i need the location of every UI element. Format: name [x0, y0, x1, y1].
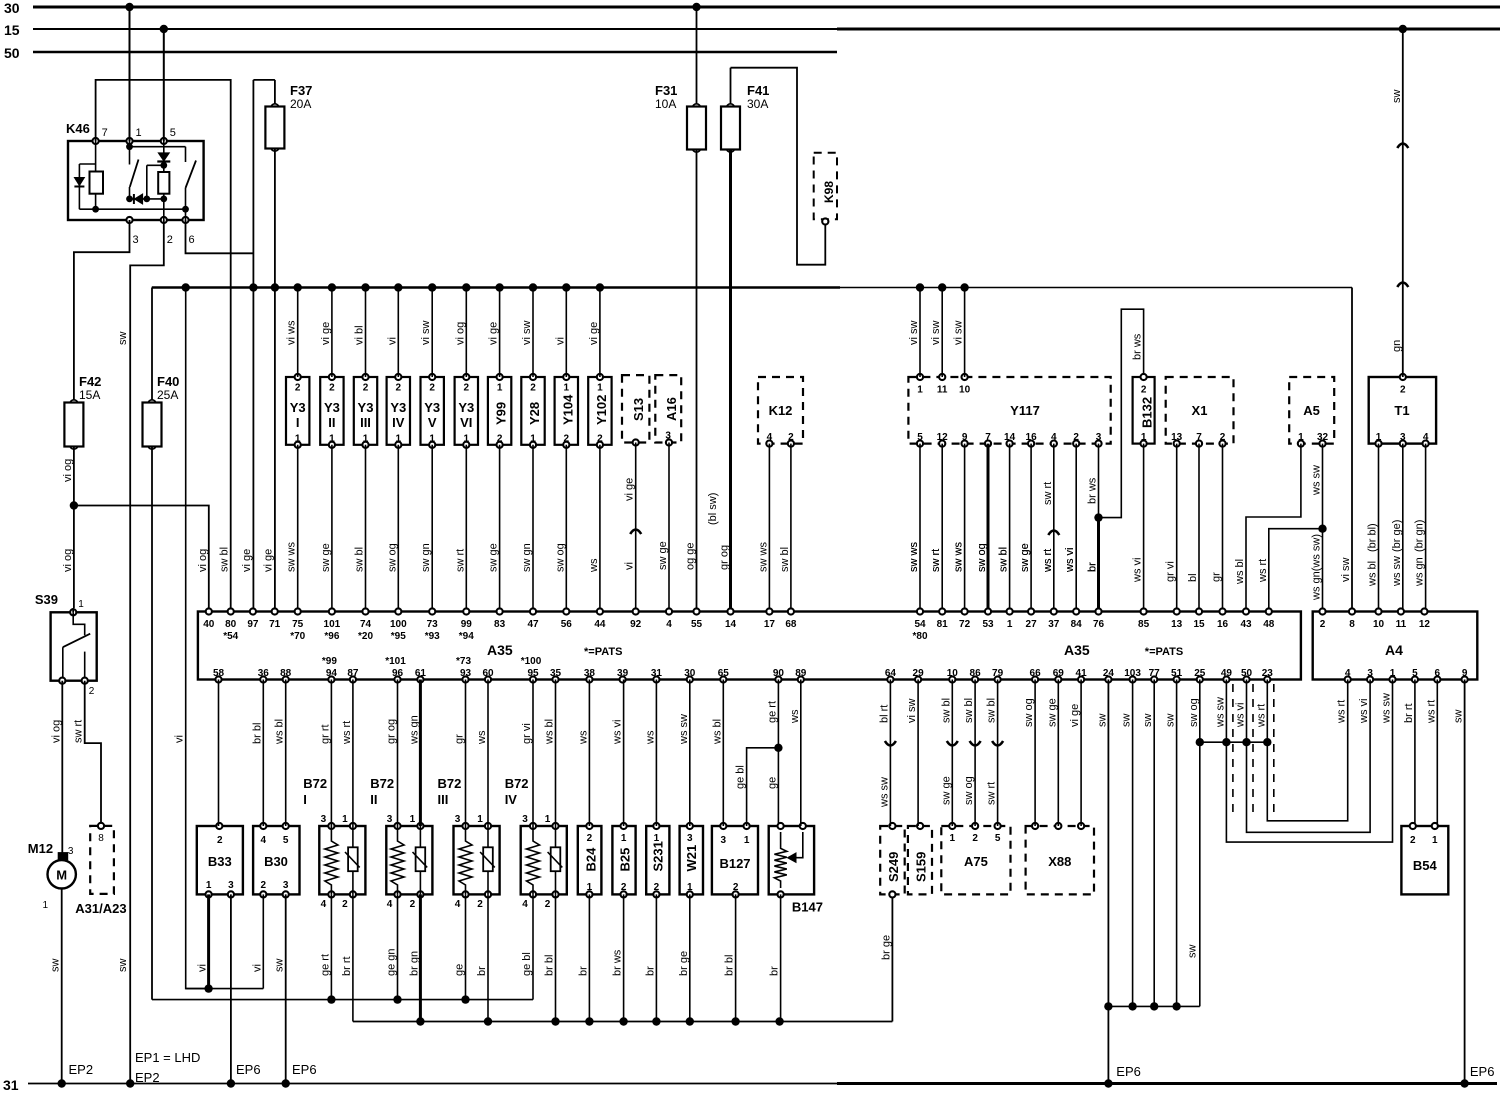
svg-text:50: 50	[1241, 668, 1253, 679]
svg-text:10: 10	[1373, 619, 1385, 630]
svg-text:1: 1	[1007, 619, 1013, 630]
svg-text:1: 1	[410, 814, 416, 825]
svg-text:*=PATS: *=PATS	[1145, 646, 1183, 658]
svg-text:ws: ws	[476, 730, 488, 745]
svg-text:*101: *101	[385, 656, 406, 667]
svg-text:7: 7	[985, 432, 991, 443]
svg-text:sw rt: sw rt	[930, 549, 942, 572]
svg-text:sw rt: sw rt	[73, 720, 85, 743]
svg-text:95: 95	[527, 668, 539, 679]
svg-text:br: br	[644, 966, 656, 976]
svg-text:ws vi: ws vi	[1235, 703, 1247, 728]
svg-text:V: V	[428, 415, 437, 430]
svg-text:br: br	[1087, 562, 1099, 572]
svg-text:vi og: vi og	[50, 720, 62, 743]
svg-text:ge rt: ge rt	[319, 954, 331, 976]
svg-text:*99: *99	[322, 656, 337, 667]
svg-text:Y99: Y99	[494, 402, 509, 425]
svg-text:1: 1	[621, 833, 627, 844]
svg-text:B24: B24	[583, 847, 598, 872]
svg-text:2: 2	[1320, 619, 1326, 630]
svg-text:sw ge: sw ge	[1019, 543, 1031, 572]
svg-text:15A: 15A	[79, 388, 100, 402]
svg-text:3: 3	[228, 880, 234, 891]
svg-text:61: 61	[415, 668, 427, 679]
svg-text:80: 80	[225, 619, 237, 630]
svg-text:1: 1	[363, 434, 369, 445]
svg-text:103: 103	[1124, 668, 1141, 679]
svg-text:br bl: br bl	[724, 955, 736, 976]
svg-text:79: 79	[992, 668, 1004, 679]
svg-text:1: 1	[1141, 432, 1147, 443]
svg-text:ws sw: ws sw	[1391, 556, 1403, 587]
svg-text:sw gn: sw gn	[521, 543, 533, 572]
svg-text:sw bl: sw bl	[998, 547, 1010, 572]
svg-text:sw og: sw og	[554, 543, 566, 572]
svg-text:ws sw: ws sw	[878, 777, 890, 808]
svg-text:ws vi: ws vi	[1132, 558, 1144, 583]
svg-text:vi ge: vi ge	[588, 322, 600, 345]
svg-text:vi sw: vi sw	[930, 321, 942, 346]
svg-text:vi sw: vi sw	[906, 699, 918, 724]
svg-text:Y3: Y3	[290, 400, 306, 415]
svg-text:1: 1	[477, 814, 483, 825]
svg-text:3: 3	[68, 846, 74, 857]
svg-text:B72: B72	[370, 776, 394, 791]
svg-text:*100: *100	[521, 656, 542, 667]
svg-text:vi og: vi og	[62, 459, 74, 482]
svg-text:101: 101	[324, 619, 341, 630]
svg-text:9: 9	[962, 432, 968, 443]
svg-text:EP2: EP2	[135, 1070, 160, 1085]
svg-text:br: br	[577, 966, 589, 976]
svg-text:13: 13	[1171, 619, 1183, 630]
svg-text:B54: B54	[1413, 858, 1438, 873]
svg-text:90: 90	[773, 668, 785, 679]
svg-text:29: 29	[913, 668, 925, 679]
svg-text:ws rt: ws rt	[1257, 559, 1269, 583]
svg-text:*94: *94	[459, 631, 474, 642]
svg-text:X1: X1	[1192, 403, 1208, 418]
svg-text:br ws: br ws	[1132, 333, 1144, 360]
svg-text:III: III	[438, 792, 449, 807]
svg-text:sw: sw	[1453, 710, 1465, 724]
svg-text:14: 14	[725, 619, 737, 630]
svg-text:A5: A5	[1303, 403, 1320, 418]
svg-text:74: 74	[360, 619, 372, 630]
svg-text:6: 6	[1435, 668, 1441, 679]
svg-text:IV: IV	[392, 415, 405, 430]
svg-text:br rt: br rt	[1403, 703, 1415, 723]
svg-text:27: 27	[1026, 619, 1038, 630]
svg-text:sw ge: sw ge	[320, 543, 332, 572]
svg-text:vi sw: vi sw	[521, 321, 533, 346]
svg-text:sw: sw	[1187, 945, 1199, 959]
svg-text:69: 69	[1053, 668, 1065, 679]
svg-text:32: 32	[1317, 432, 1329, 443]
svg-text:56: 56	[561, 619, 573, 630]
svg-text:4: 4	[1423, 432, 1429, 443]
svg-text:10: 10	[959, 385, 971, 396]
svg-text:2: 2	[1410, 835, 1416, 846]
svg-text:sw: sw	[50, 959, 62, 973]
svg-text:sw rt: sw rt	[1042, 482, 1054, 505]
svg-text:gr vi: gr vi	[521, 723, 533, 744]
svg-text:2: 2	[342, 899, 348, 910]
svg-text:*=PATS: *=PATS	[584, 646, 622, 658]
svg-text:ws bl: ws bl	[1234, 559, 1246, 585]
svg-text:X88: X88	[1048, 854, 1071, 869]
svg-text:ws: ws	[588, 558, 600, 573]
svg-text:99: 99	[461, 619, 473, 630]
svg-text:sw: sw	[1165, 714, 1177, 728]
svg-text:12: 12	[1419, 619, 1431, 630]
svg-text:sw og: sw og	[1188, 698, 1200, 727]
svg-text:15: 15	[1193, 619, 1205, 630]
svg-text:48: 48	[1263, 619, 1275, 630]
svg-text:2: 2	[972, 833, 978, 844]
svg-text:S231: S231	[650, 841, 665, 871]
svg-text:88: 88	[280, 668, 292, 679]
svg-text:24: 24	[1103, 668, 1115, 679]
svg-text:I: I	[303, 792, 307, 807]
svg-text:97: 97	[247, 619, 259, 630]
svg-text:44: 44	[594, 619, 606, 630]
svg-text:ws vi: ws vi	[1358, 699, 1370, 724]
svg-text:2: 2	[261, 880, 267, 891]
svg-text:75: 75	[292, 619, 304, 630]
svg-text:*96: *96	[324, 631, 339, 642]
svg-text:2: 2	[429, 383, 435, 394]
svg-text:sw bl: sw bl	[963, 698, 975, 723]
svg-text:vi sw: vi sw	[1340, 558, 1352, 583]
svg-text:EP2: EP2	[69, 1062, 94, 1077]
svg-text:66: 66	[1030, 668, 1042, 679]
svg-text:5: 5	[283, 835, 289, 846]
svg-text:br: br	[769, 966, 781, 976]
svg-text:3: 3	[133, 234, 139, 246]
svg-text:3: 3	[283, 880, 289, 891]
svg-text:*54: *54	[223, 631, 238, 642]
svg-text:ws bl: ws bl	[711, 719, 723, 745]
svg-text:T1: T1	[1394, 403, 1409, 418]
svg-text:49: 49	[1221, 668, 1233, 679]
svg-text:ws rt: ws rt	[341, 721, 353, 745]
svg-text:1: 1	[917, 385, 923, 396]
svg-text:K46: K46	[66, 121, 90, 136]
svg-text:og ge: og ge	[685, 542, 697, 570]
svg-text:ws rt: ws rt	[1425, 700, 1437, 724]
svg-text:30: 30	[4, 0, 20, 16]
svg-text:A35: A35	[487, 642, 513, 658]
svg-text:br bl: br bl	[251, 723, 263, 744]
svg-text:B72: B72	[438, 776, 462, 791]
svg-text:sw bl: sw bl	[219, 547, 231, 572]
svg-text:55: 55	[691, 619, 703, 630]
svg-text:10A: 10A	[655, 97, 676, 111]
svg-text:1: 1	[687, 882, 693, 893]
svg-text:53: 53	[982, 619, 994, 630]
svg-text:8: 8	[1349, 619, 1355, 630]
svg-text:100: 100	[390, 619, 407, 630]
svg-text:4: 4	[767, 432, 773, 443]
svg-text:1: 1	[295, 434, 301, 445]
svg-text:2: 2	[89, 686, 95, 697]
svg-text:1: 1	[530, 434, 536, 445]
svg-text:sw: sw	[1096, 714, 1108, 728]
svg-text:S249: S249	[886, 852, 901, 882]
svg-text:86: 86	[970, 668, 982, 679]
svg-text:VI: VI	[460, 415, 472, 430]
svg-text:7: 7	[102, 127, 108, 139]
svg-text:93: 93	[460, 668, 472, 679]
svg-text:2: 2	[1073, 432, 1079, 443]
svg-text:1: 1	[597, 383, 603, 394]
svg-text:77: 77	[1149, 668, 1161, 679]
svg-text:2: 2	[167, 234, 173, 246]
svg-text:F31: F31	[655, 83, 677, 98]
svg-text:36: 36	[258, 668, 270, 679]
svg-text:5: 5	[995, 833, 1001, 844]
svg-text:*80: *80	[912, 631, 927, 642]
svg-text:sw rt: sw rt	[454, 549, 466, 572]
svg-text:vi ws: vi ws	[286, 320, 298, 345]
svg-text:F40: F40	[157, 374, 179, 389]
svg-text:EP6: EP6	[1470, 1064, 1495, 1079]
svg-text:1: 1	[42, 900, 48, 911]
svg-text:2: 2	[1141, 385, 1147, 396]
svg-text:vi sw: vi sw	[953, 321, 965, 346]
svg-text:bl rt: bl rt	[878, 705, 890, 723]
svg-text:2: 2	[597, 434, 603, 445]
svg-text:*70: *70	[290, 631, 305, 642]
svg-text:3: 3	[721, 835, 727, 846]
svg-text:F41: F41	[747, 83, 769, 98]
svg-text:13: 13	[1171, 432, 1183, 443]
svg-text:30: 30	[684, 668, 696, 679]
svg-text:2: 2	[654, 882, 660, 893]
svg-text:4: 4	[666, 619, 672, 630]
svg-text:vi sw: vi sw	[908, 321, 920, 346]
svg-text:Y104: Y104	[560, 394, 575, 425]
svg-text:A75: A75	[964, 854, 988, 869]
svg-text:2: 2	[464, 383, 470, 394]
svg-text:vi og: vi og	[62, 549, 74, 572]
svg-text:1: 1	[464, 434, 470, 445]
svg-text:bl: bl	[1187, 573, 1199, 582]
svg-text:2: 2	[295, 383, 301, 394]
svg-text:3: 3	[455, 814, 461, 825]
svg-text:Y3: Y3	[458, 400, 474, 415]
svg-text:ws rt: ws rt	[1042, 549, 1054, 573]
svg-text:16: 16	[1217, 619, 1229, 630]
svg-text:3: 3	[321, 814, 327, 825]
svg-text:4: 4	[522, 899, 528, 910]
svg-text:sw ws: sw ws	[286, 542, 298, 572]
svg-text:14: 14	[1004, 432, 1016, 443]
svg-text:2: 2	[587, 833, 593, 844]
svg-text:ws vi: ws vi	[612, 720, 624, 745]
svg-text:gr rt: gr rt	[319, 724, 331, 744]
svg-text:96: 96	[392, 668, 404, 679]
svg-text:IV: IV	[505, 792, 518, 807]
svg-text:60: 60	[482, 668, 494, 679]
svg-text:III: III	[360, 415, 371, 430]
svg-text:B72: B72	[505, 776, 529, 791]
svg-text:40: 40	[203, 619, 215, 630]
svg-text:37: 37	[1048, 619, 1060, 630]
svg-text:76: 76	[1093, 619, 1105, 630]
svg-text:*95: *95	[391, 631, 406, 642]
svg-text:B30: B30	[264, 854, 288, 869]
svg-text:ge: ge	[454, 964, 466, 976]
svg-text:K98: K98	[822, 181, 836, 203]
svg-text:ws bl: ws bl	[1367, 561, 1379, 587]
svg-text:(br ge): (br ge)	[1391, 520, 1403, 552]
svg-text:5: 5	[1412, 668, 1418, 679]
svg-text:vi sw: vi sw	[420, 321, 432, 346]
svg-text:vi og: vi og	[454, 322, 466, 345]
svg-text:*93: *93	[425, 631, 440, 642]
svg-text:Y117: Y117	[1010, 403, 1040, 418]
svg-text:8: 8	[98, 833, 104, 844]
svg-text:3: 3	[1367, 668, 1373, 679]
svg-text:A31/A23: A31/A23	[75, 901, 126, 916]
svg-text:89: 89	[795, 668, 807, 679]
svg-text:M: M	[56, 868, 67, 883]
svg-text:68: 68	[785, 619, 797, 630]
svg-text:51: 51	[1171, 668, 1183, 679]
svg-text:2: 2	[621, 882, 627, 893]
svg-text:sw: sw	[1121, 714, 1133, 728]
svg-text:sw: sw	[1391, 90, 1403, 104]
svg-text:Y102: Y102	[594, 395, 609, 425]
svg-text:vi ge: vi ge	[1069, 704, 1081, 727]
svg-text:2: 2	[1400, 385, 1406, 396]
svg-text:94: 94	[326, 668, 338, 679]
svg-text:sw: sw	[117, 332, 129, 346]
svg-text:50: 50	[4, 45, 20, 61]
svg-text:4: 4	[1051, 432, 1057, 443]
svg-text:gr og: gr og	[386, 719, 398, 744]
svg-text:2: 2	[788, 432, 794, 443]
svg-text:1: 1	[396, 434, 402, 445]
svg-text:11: 11	[1396, 619, 1407, 630]
svg-text:ge rt: ge rt	[766, 701, 778, 723]
svg-text:1: 1	[744, 835, 750, 846]
svg-text:4: 4	[1345, 668, 1351, 679]
svg-text:vi: vi	[624, 562, 636, 570]
svg-text:vi ge: vi ge	[624, 478, 636, 501]
svg-text:F37: F37	[290, 83, 312, 98]
svg-text:br bl: br bl	[544, 955, 556, 976]
svg-text:vi: vi	[386, 337, 398, 345]
svg-text:sw gn: sw gn	[420, 543, 432, 572]
svg-text:S159: S159	[914, 852, 929, 882]
svg-text:10: 10	[947, 668, 959, 679]
svg-text:20A: 20A	[290, 97, 311, 111]
svg-text:(br gn): (br gn)	[1414, 520, 1426, 552]
svg-text:11: 11	[937, 385, 948, 396]
svg-text:2: 2	[545, 899, 551, 910]
svg-text:ws bl: ws bl	[544, 719, 556, 745]
svg-text:br rt: br rt	[341, 956, 353, 976]
svg-text:S13: S13	[631, 398, 646, 421]
svg-text:ge gn: ge gn	[386, 948, 398, 976]
svg-text:39: 39	[617, 668, 629, 679]
svg-text:gn: gn	[1391, 340, 1403, 352]
svg-text:5: 5	[170, 127, 176, 139]
svg-text:ge bl: ge bl	[735, 765, 747, 789]
svg-text:Y28: Y28	[527, 402, 542, 425]
svg-text:br ge: br ge	[678, 951, 690, 976]
svg-text:Y3: Y3	[424, 400, 440, 415]
svg-text:vi: vi	[197, 964, 209, 972]
svg-text:vi: vi	[554, 337, 566, 345]
svg-text:(bl sw): (bl sw)	[707, 493, 719, 525]
svg-text:35: 35	[550, 668, 562, 679]
svg-text:3: 3	[387, 814, 393, 825]
svg-text:2: 2	[396, 383, 402, 394]
svg-text:gr: gr	[1211, 572, 1223, 582]
svg-text:ws: ws	[577, 730, 589, 745]
svg-text:16: 16	[1026, 432, 1038, 443]
svg-text:1: 1	[1298, 432, 1304, 443]
svg-text:gr: gr	[454, 734, 466, 744]
svg-text:ws sw: ws sw	[1381, 693, 1393, 724]
svg-text:sw ws: sw ws	[953, 542, 965, 572]
svg-text:sw og: sw og	[386, 543, 398, 572]
svg-text:83: 83	[494, 619, 506, 630]
svg-text:4: 4	[455, 899, 461, 910]
svg-text:sw ws: sw ws	[757, 542, 769, 572]
svg-text:3: 3	[1096, 432, 1102, 443]
svg-text:1: 1	[1376, 432, 1382, 443]
svg-text:1: 1	[342, 814, 348, 825]
svg-text:1: 1	[587, 882, 593, 893]
svg-text:4: 4	[261, 835, 267, 846]
svg-text:3: 3	[687, 833, 693, 844]
svg-text:Y3: Y3	[358, 400, 374, 415]
svg-text:38: 38	[584, 668, 596, 679]
svg-text:43: 43	[1240, 619, 1252, 630]
svg-text:1: 1	[497, 383, 503, 394]
svg-text:sw bl: sw bl	[354, 547, 366, 572]
svg-text:81: 81	[937, 619, 949, 630]
svg-text:vi ge: vi ge	[241, 549, 253, 572]
svg-text:B33: B33	[208, 854, 232, 869]
svg-text:2: 2	[497, 434, 503, 445]
svg-text:sw rt: sw rt	[986, 782, 998, 805]
svg-text:2: 2	[477, 899, 483, 910]
svg-text:ge bl: ge bl	[521, 952, 533, 976]
svg-text:9: 9	[1462, 668, 1468, 679]
svg-text:25: 25	[1194, 668, 1206, 679]
svg-text:73: 73	[427, 619, 439, 630]
svg-text:vi: vi	[251, 964, 263, 972]
svg-text:*73: *73	[456, 656, 471, 667]
svg-text:1: 1	[950, 833, 956, 844]
svg-text:ws gn: ws gn	[1414, 557, 1426, 587]
svg-text:br ge: br ge	[880, 935, 892, 960]
svg-text:vi ge: vi ge	[320, 322, 332, 345]
svg-text:1: 1	[329, 434, 335, 445]
svg-text:gr vi: gr vi	[1165, 561, 1177, 582]
svg-text:M12: M12	[28, 841, 53, 856]
svg-text:2: 2	[410, 899, 416, 910]
svg-text:EP6: EP6	[1116, 1064, 1141, 1079]
svg-text:4: 4	[321, 899, 327, 910]
